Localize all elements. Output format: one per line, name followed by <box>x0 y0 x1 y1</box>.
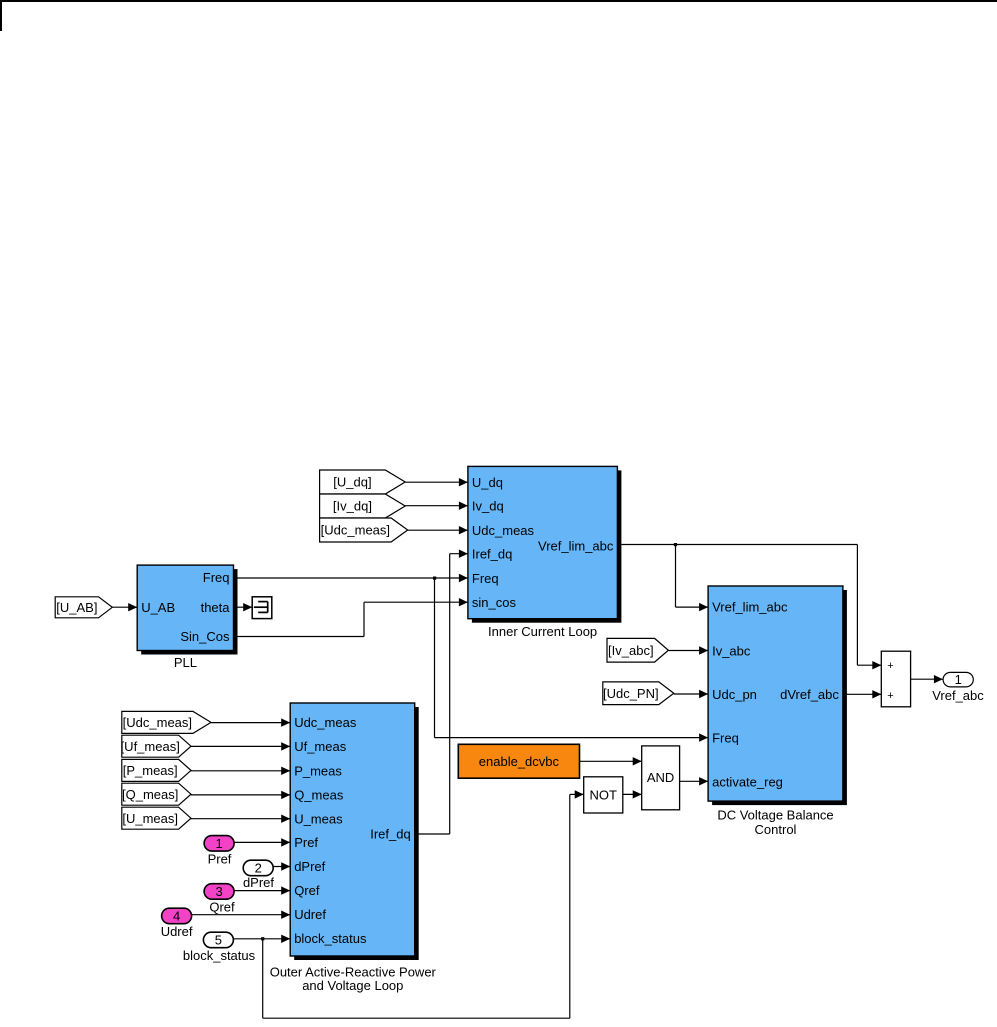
from tag [Uf_meas] <box>121 735 191 757</box>
wire [Q_meas] to Outer.Q_meas <box>191 791 290 799</box>
svg-text:Freq: Freq <box>472 571 499 586</box>
wire block_status branch to NOT input <box>263 790 584 1018</box>
svg-text:[Q_meas]: [Q_meas] <box>122 787 178 802</box>
inport 5 block_status <box>203 932 233 948</box>
svg-text:5: 5 <box>215 933 222 948</box>
wire [Uf_meas] to Outer.Uf_meas <box>191 742 290 750</box>
label Inner Current Loop <box>488 624 597 639</box>
svg-text:+: + <box>887 690 893 702</box>
svg-text:block_status: block_status <box>183 948 256 963</box>
svg-text:4: 4 <box>173 909 180 924</box>
from tag [Iv_abc] <box>607 638 668 662</box>
label block_status <box>183 948 256 963</box>
svg-text:Control: Control <box>755 822 797 837</box>
junction node on Freq wire <box>433 577 436 580</box>
svg-text:[U_dq]: [U_dq] <box>333 475 371 490</box>
svg-text:P_meas: P_meas <box>294 763 342 778</box>
inport 2 dPref <box>243 860 273 876</box>
svg-text:Iv_abc: Iv_abc <box>712 643 751 658</box>
svg-text:[Iv_dq]: [Iv_dq] <box>333 499 372 514</box>
wire Inner.Vref_lim_abc to Sum (+1) <box>621 545 881 670</box>
svg-text:[P_meas]: [P_meas] <box>123 763 178 778</box>
svg-text:Vref_abc: Vref_abc <box>932 688 984 703</box>
wire NOT output to AND input 2 <box>623 790 642 798</box>
junction node on block_status wire <box>261 937 264 940</box>
label Pref <box>208 852 232 867</box>
wire Outer.Iref_dq to Inner.Iref_dq <box>419 550 468 835</box>
subsystem block DC Voltage Balance Control <box>708 586 847 805</box>
from tag [Q_meas] <box>122 783 191 805</box>
wire Vref_lim_abc branch to DC.Vref_lim_abc <box>676 545 709 612</box>
from tag [U_AB] <box>55 597 112 618</box>
label PLL <box>174 655 197 670</box>
svg-text:theta: theta <box>201 600 231 615</box>
svg-text:block_status: block_status <box>294 931 367 946</box>
svg-text:+: + <box>887 660 893 672</box>
label DC Voltage Balance Control <box>717 807 833 837</box>
svg-text:enable_dcvbc: enable_dcvbc <box>479 754 560 769</box>
wire [Udc_meas] to Inner.Udc_meas <box>408 526 468 534</box>
svg-text:1: 1 <box>215 836 222 851</box>
svg-text:DC Voltage Balance: DC Voltage Balance <box>717 807 833 822</box>
svg-text:Freq: Freq <box>712 731 739 746</box>
page left border tick <box>0 0 2 31</box>
svg-text:Qref: Qref <box>294 883 320 898</box>
label Vref_abc <box>932 688 984 703</box>
svg-text:[U_meas]: [U_meas] <box>122 811 178 826</box>
svg-text:Inner Current Loop: Inner Current Loop <box>488 624 597 639</box>
svg-text:U_dq: U_dq <box>472 475 503 490</box>
wire inport 1 to Outer.Pref <box>234 838 290 846</box>
svg-text:[Iv_abc]: [Iv_abc] <box>608 643 654 658</box>
svg-text:Udc_meas: Udc_meas <box>472 523 535 538</box>
wire inport 2 to Outer.dPref <box>273 862 290 870</box>
inport 3 Qref <box>204 884 234 900</box>
wire [Udc_PN] to DC.Udc_pn <box>674 690 708 698</box>
label dPref <box>243 875 274 890</box>
from tag [Udc_PN] <box>603 682 674 705</box>
svg-text:Pref: Pref <box>208 852 232 867</box>
svg-text:Sin_Cos: Sin_Cos <box>180 629 230 644</box>
from tag [P_meas] <box>122 759 191 781</box>
from tag [Udc_meas] (left) <box>122 711 211 733</box>
svg-text:PLL: PLL <box>174 655 197 670</box>
svg-text:Iref_dq: Iref_dq <box>370 827 410 842</box>
label Outer Active-Reactive Power and Voltage Loop <box>270 965 437 994</box>
svg-text:U_meas: U_meas <box>294 811 343 826</box>
wire Sum to outport Vref_abc <box>911 675 943 683</box>
svg-text:Vref_lim_abc: Vref_lim_abc <box>712 600 788 615</box>
svg-text:Pref: Pref <box>294 835 318 850</box>
page top border line <box>0 0 997 2</box>
logic block NOT <box>584 777 623 813</box>
svg-text:dVref_abc: dVref_abc <box>780 687 839 702</box>
svg-text:Vref_lim_abc: Vref_lim_abc <box>538 538 614 553</box>
svg-text:dPref: dPref <box>243 875 274 890</box>
wire enable_dcvbc to AND input 1 <box>580 757 642 765</box>
wire inport 3 to Outer.Qref <box>234 886 290 894</box>
svg-text:[Uf_meas]: [Uf_meas] <box>121 739 180 754</box>
wire PLL.Freq to Inner.Freq <box>238 574 468 582</box>
wire [Iv_abc] to DC.Iv_abc <box>668 646 708 654</box>
svg-text:1: 1 <box>955 672 962 687</box>
wire inport 5 to Outer.block_status <box>233 935 290 943</box>
svg-text:Uf_meas: Uf_meas <box>294 739 347 754</box>
svg-text:activate_reg: activate_reg <box>712 775 783 790</box>
svg-text:U_AB: U_AB <box>141 600 175 615</box>
wire Freq branch to DC.Freq <box>435 578 709 742</box>
wire DC.dVref_abc to Sum (+2) <box>847 690 882 698</box>
svg-text:[Udc_meas]: [Udc_meas] <box>123 715 192 730</box>
logic block AND <box>642 746 680 810</box>
svg-text:and Voltage Loop: and Voltage Loop <box>302 978 403 993</box>
svg-text:Udc_pn: Udc_pn <box>712 687 757 702</box>
inport 1 Pref <box>204 836 234 852</box>
subsystem block Inner Current Loop <box>468 466 622 622</box>
svg-text:[Udc_PN]: [Udc_PN] <box>603 686 659 701</box>
wire [U_meas] to Outer.U_meas <box>191 815 290 823</box>
svg-text:Udref: Udref <box>161 924 193 939</box>
svg-text:Udref: Udref <box>294 907 326 922</box>
svg-text:dPref: dPref <box>294 859 325 874</box>
junction node on Vref_lim_abc wire <box>674 543 677 546</box>
svg-text:sin_cos: sin_cos <box>472 595 517 610</box>
svg-text:3: 3 <box>215 884 222 899</box>
wire PLL.theta to terminator <box>238 603 253 611</box>
subsystem block Outer Active-Reactive Power and Voltage Loop <box>290 703 419 960</box>
sum block (+ +) <box>881 651 910 707</box>
from tag [Iv_dq] <box>320 494 406 518</box>
svg-text:Qref: Qref <box>209 900 235 915</box>
wire AND output to DC.activate_reg <box>680 777 709 785</box>
wire [P_meas] to Outer.P_meas <box>191 767 290 775</box>
svg-text:NOT: NOT <box>589 787 617 802</box>
svg-text:Udc_meas: Udc_meas <box>294 715 357 730</box>
outport 1 <box>943 672 973 687</box>
constant block enable_dcvbc <box>458 744 579 778</box>
wire [Udc_meas] to Outer.Udc_meas <box>211 718 290 726</box>
from tag [Udc_meas] (top) <box>320 518 408 542</box>
subsystem block PLL (ports U_AB, Freq, theta, Sin_Cos) <box>137 565 237 654</box>
label Udref <box>161 924 193 939</box>
svg-text:[U_AB]: [U_AB] <box>56 600 97 615</box>
from tag [U_meas] <box>122 807 191 829</box>
wire [Iv_dq] to Inner.Iv_dq <box>405 502 468 510</box>
svg-text:Iref_dq: Iref_dq <box>472 546 512 561</box>
inport 4 Udref <box>162 908 192 924</box>
terminator block (theta sink) <box>252 597 272 619</box>
svg-text:Q_meas: Q_meas <box>294 788 344 803</box>
svg-text:2: 2 <box>255 861 262 876</box>
svg-text:Freq: Freq <box>203 570 230 585</box>
wire inport 4 to Outer.Udref <box>192 911 291 919</box>
svg-text:AND: AND <box>647 770 674 785</box>
wire [U_AB] to PLL.U_AB <box>112 603 137 611</box>
from tag [U_dq] <box>320 470 406 494</box>
wire PLL.Sin_Cos to Inner.sin_cos <box>238 598 468 637</box>
wire [U_dq] to Inner.U_dq <box>405 478 468 486</box>
label Qref <box>209 900 235 915</box>
svg-text:Iv_dq: Iv_dq <box>472 498 504 513</box>
svg-text:[Udc_meas]: [Udc_meas] <box>321 523 390 538</box>
